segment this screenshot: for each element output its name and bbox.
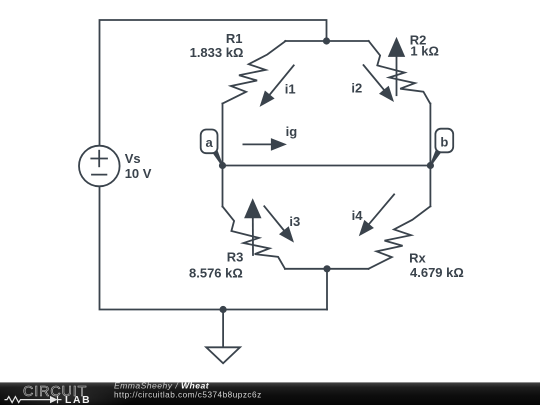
resistor R3 wiper arrow	[252, 216, 254, 255]
svg-text:4.679 kΩ: 4.679 kΩ	[410, 265, 464, 280]
current arrow i1	[269, 65, 294, 96]
svg-text:ig: ig	[286, 124, 298, 139]
resistor R3 8.576k	[223, 207, 286, 269]
wire R1 to node a to R3	[222, 104, 224, 207]
svg-text:R3: R3	[227, 250, 244, 265]
svg-text:1.833 kΩ: 1.833 kΩ	[190, 45, 244, 60]
junction ground tap	[220, 306, 227, 313]
ground symbol	[206, 347, 240, 363]
svg-text:a: a	[205, 135, 213, 150]
svg-text:http://circuitlab.com/c5374b8u: http://circuitlab.com/c5374b8upzc6z	[114, 390, 262, 399]
svg-text:1 kΩ: 1 kΩ	[410, 44, 439, 59]
svg-text:8.576 kΩ: 8.576 kΩ	[189, 265, 243, 280]
Vs minus sign	[92, 174, 106, 176]
wire R2 to node b to Rx	[429, 104, 431, 207]
wire node a to node b	[223, 165, 431, 167]
footer bar	[0, 382, 540, 405]
svg-text:i3: i3	[289, 214, 300, 229]
svg-text:b: b	[440, 135, 448, 150]
resistor R2 1k	[369, 41, 431, 104]
wire top junction horizontal	[285, 40, 369, 42]
voltage source Vs circle	[79, 146, 120, 187]
logo symbol row: resistor zigzag, diode, wire	[5, 396, 62, 403]
wire R3 to Rx bottom horizontal	[285, 268, 369, 270]
svg-text:LAB: LAB	[65, 395, 91, 405]
current arrow i4	[368, 194, 394, 225]
current arrow i3	[264, 206, 285, 232]
node a flag	[212, 150, 223, 166]
svg-text:Rx: Rx	[409, 250, 426, 265]
junction bottom center	[323, 265, 330, 272]
resistor R2 wiper arrow	[396, 55, 398, 95]
wire bottom junction down	[326, 269, 328, 310]
wire top rail	[100, 20, 327, 146]
svg-text:i4: i4	[352, 208, 364, 223]
wire bottom rail	[100, 186, 328, 309]
node b flag	[430, 150, 442, 166]
node b junction	[427, 162, 434, 169]
current arrow i2	[364, 65, 386, 91]
node a junction	[219, 162, 226, 169]
resistor R1 1.833k	[223, 41, 286, 104]
svg-text:i1: i1	[285, 81, 296, 96]
current arrow ig	[243, 143, 273, 145]
svg-text:10 V: 10 V	[125, 166, 152, 181]
svg-text:Vs: Vs	[125, 151, 141, 166]
wire ground stem	[222, 310, 224, 348]
Vs plus sign	[91, 158, 107, 160]
svg-text:i2: i2	[351, 81, 362, 96]
svg-text:EmmaSheehy / Wheat: EmmaSheehy / Wheat	[114, 381, 210, 391]
resistor Rx 4.679k	[369, 206, 431, 268]
junction top	[323, 37, 330, 44]
